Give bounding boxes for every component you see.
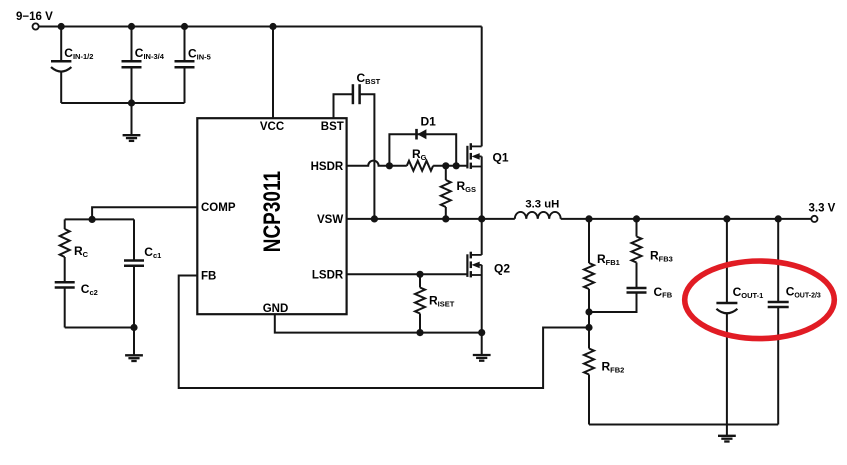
svg-text:RG: RG bbox=[412, 147, 427, 162]
svg-text:CIN-5: CIN-5 bbox=[188, 47, 211, 62]
svg-text:RISET: RISET bbox=[429, 294, 455, 309]
svg-text:RC: RC bbox=[74, 244, 89, 259]
svg-text:COUT-2/3: COUT-2/3 bbox=[786, 285, 821, 300]
svg-text:COUT-1: COUT-1 bbox=[733, 285, 764, 300]
svg-text:CIN-1/2: CIN-1/2 bbox=[64, 46, 93, 61]
svg-text:Cc1: Cc1 bbox=[144, 245, 161, 260]
svg-text:Q2: Q2 bbox=[494, 262, 510, 276]
svg-text:FB: FB bbox=[201, 271, 216, 283]
svg-text:LSDR: LSDR bbox=[312, 269, 344, 281]
svg-text:RFB1: RFB1 bbox=[597, 252, 620, 267]
svg-text:CIN-3/4: CIN-3/4 bbox=[135, 46, 165, 61]
svg-text:GND: GND bbox=[263, 303, 289, 315]
svg-text:NCP3011: NCP3011 bbox=[259, 171, 286, 252]
svg-text:9−16 V: 9−16 V bbox=[16, 11, 53, 23]
svg-text:RFB2: RFB2 bbox=[602, 360, 625, 375]
svg-text:CFB: CFB bbox=[654, 285, 673, 300]
svg-text:RFB3: RFB3 bbox=[650, 249, 673, 264]
svg-text:Cc2: Cc2 bbox=[81, 282, 98, 297]
svg-text:Q1: Q1 bbox=[493, 150, 509, 164]
svg-text:RGS: RGS bbox=[457, 179, 477, 194]
svg-text:VSW: VSW bbox=[317, 214, 343, 226]
svg-text:HSDR: HSDR bbox=[311, 161, 344, 173]
svg-text:CBST: CBST bbox=[357, 71, 381, 86]
svg-text:COMP: COMP bbox=[201, 202, 236, 214]
svg-text:3.3 V: 3.3 V bbox=[809, 203, 836, 215]
svg-text:VCC: VCC bbox=[260, 121, 284, 133]
svg-text:3.3 uH: 3.3 uH bbox=[525, 198, 559, 210]
svg-text:D1: D1 bbox=[421, 115, 437, 129]
svg-text:BST: BST bbox=[321, 121, 344, 133]
